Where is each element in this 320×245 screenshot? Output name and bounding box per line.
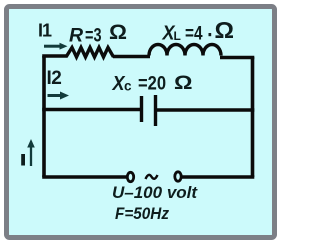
current arrow I1 bbox=[44, 43, 68, 50]
svg-text:=4: =4 bbox=[185, 23, 203, 45]
svg-text:R: R bbox=[69, 25, 83, 47]
ac source terminal left bbox=[127, 172, 133, 181]
wire bottom right bbox=[182, 175, 255, 179]
current arrow I bbox=[27, 139, 35, 166]
wire between R and XL bbox=[113, 55, 150, 59]
svg-text:U–100 volt: U–100 volt bbox=[112, 183, 198, 202]
wire right vertical bbox=[251, 57, 255, 177]
svg-text:Ω: Ω bbox=[174, 73, 193, 94]
label XL=4 ohm bbox=[162, 17, 234, 45]
capacitor XC bbox=[142, 95, 156, 126]
wire left vertical bbox=[42, 56, 46, 177]
label F=50Hz bbox=[115, 204, 169, 223]
svg-text:Ω: Ω bbox=[215, 17, 235, 43]
svg-text:I1: I1 bbox=[38, 21, 52, 41]
svg-text:Ω: Ω bbox=[109, 20, 127, 44]
svg-text:F=50Hz: F=50Hz bbox=[115, 204, 169, 223]
svg-text:=20: =20 bbox=[138, 73, 166, 95]
label I bbox=[21, 154, 25, 166]
svg-text:I2: I2 bbox=[47, 68, 62, 89]
label U=100 volt bbox=[112, 183, 198, 202]
inductor XL bbox=[149, 45, 221, 56]
wire top left lead bbox=[42, 54, 67, 58]
wire capacitor branch right bbox=[157, 108, 254, 112]
ac source terminal right bbox=[175, 172, 181, 181]
svg-text:c: c bbox=[124, 79, 132, 94]
label I1 bbox=[38, 21, 52, 41]
ac source tilde bbox=[146, 175, 158, 179]
wire capacitor branch left bbox=[42, 108, 140, 112]
svg-text:=3: =3 bbox=[85, 25, 102, 47]
current arrow I2 bbox=[48, 92, 70, 100]
wire between XL and right corner bbox=[220, 56, 254, 60]
label I2 bbox=[47, 68, 62, 89]
label XC=20 ohm bbox=[112, 73, 193, 96]
svg-text:L: L bbox=[174, 29, 181, 43]
label R=3 ohm bbox=[69, 20, 127, 47]
wire bottom left bbox=[42, 175, 127, 179]
resistor R bbox=[66, 48, 114, 58]
